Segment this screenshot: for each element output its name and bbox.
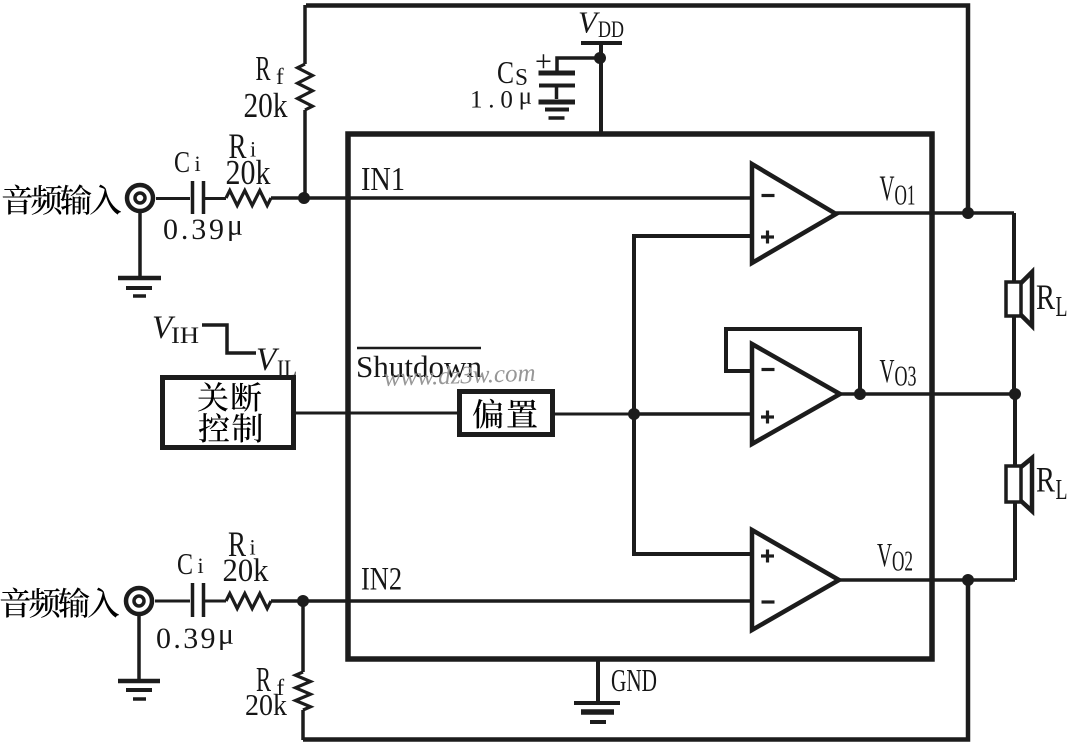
op-amp U1B [752,530,839,630]
svg-text:20k: 20k [226,153,271,192]
resistor Rf (top) 20k [244,5,313,198]
svg-text:C: C [177,546,193,581]
wire J2 to Ci [155,600,190,603]
svg-text:IN1: IN1 [361,161,405,198]
svg-text:C: C [174,144,190,179]
wire U1C output VO3 [840,392,1015,396]
label audio input 1 (Chinese) [3,184,121,215]
wire VO1 to speaker RL1 [1012,213,1016,282]
wire bottom feedback VO2 to Rf [303,580,968,740]
ground below J1 [118,211,161,296]
pin IN1 label [361,161,405,198]
node VO2 feedback junction [962,574,974,586]
ground below J2 [118,614,160,699]
resistor Ri (top) 20k [226,126,272,206]
speaker RL2 [1006,458,1067,511]
wire VDD to IC [599,43,603,134]
node VO3 speaker junction [1009,388,1021,400]
wire Ci to Ri (bottom) [205,600,226,603]
node IN1 junction [298,192,310,204]
pin Shutdown label with overline [356,348,482,384]
pin GND label [611,662,657,698]
node VIH label [152,310,199,348]
wire bias to node A [552,413,634,416]
capacitor CS [497,45,575,99]
svg-text:GND: GND [611,662,657,698]
wire speaker RL2 to VO2 [1013,502,1017,580]
svg-text:+: + [535,45,552,78]
wire top feedback VO1 to Rf [306,6,968,214]
node VO3 label [880,353,917,393]
ground below CS [539,102,576,118]
svg-text:V: V [578,5,600,40]
op-amp U1C [752,344,840,444]
connector J2 input jack [126,588,152,614]
svg-text:L: L [1056,292,1067,323]
wire J1 to Ci [156,197,190,200]
wire Ci to Ri [205,197,226,200]
svg-text:IN2: IN2 [361,562,402,598]
wire VIH-VIL step waveform [202,325,256,353]
node U1C output junction [854,388,866,400]
pin GND wire [596,659,600,702]
wire VO3 to speaker RL2 [1013,394,1017,466]
wire shutdown control to bias [295,412,459,415]
node VO2 label [877,537,913,578]
svg-text:i: i [198,553,204,578]
power VDD symbol [578,5,624,44]
svg-text:O3: O3 [895,362,917,393]
svg-text:20k: 20k [245,687,287,722]
svg-text:1.0μ: 1.0μ [470,83,532,114]
block bias (Chinese) [460,392,553,435]
svg-text:IH: IH [171,323,199,348]
node VO1 label [880,168,916,212]
resistor Rf (bottom) 20k [245,601,311,740]
capacitor Ci (bottom) [177,546,204,617]
watermark [383,360,536,392]
svg-text:R: R [1036,460,1055,500]
svg-text:0.39μ: 0.39μ [156,618,234,656]
node VIL label [256,342,297,381]
wire bias rail to U1A + and U1B + [634,236,752,554]
svg-text:i: i [195,151,201,176]
wire U1A output VO1 [836,211,1014,215]
ground GND symbol [574,703,620,722]
wire Ri to IN2 (U1B inverting input) [271,599,752,603]
svg-text:DD: DD [598,17,624,42]
wire VDD to CS [557,58,600,71]
svg-text:0.39μ: 0.39μ [163,209,243,247]
svg-text:R: R [256,49,271,88]
node VO1 feedback junction [962,207,974,219]
IC block outline U1 [348,134,932,659]
svg-text:R: R [1036,277,1055,317]
node IN2 junction [297,595,309,607]
block shutdown control (Chinese) [163,378,294,448]
resistor Ri (bottom) 20k [223,524,272,609]
svg-text:V: V [877,537,892,574]
svg-text:V: V [880,353,895,390]
svg-text:O2: O2 [892,547,913,578]
speaker RL1 [1006,272,1067,326]
svg-text:20k: 20k [244,86,288,125]
connector J1 input jack [127,185,153,211]
node A bias junction [628,408,640,420]
svg-text:www.dz3w.com: www.dz3w.com [383,360,536,392]
value CS 1.0u [470,83,532,114]
wire Ri to IN1 (U1A inverting input) [271,196,752,200]
svg-text:V: V [880,168,895,208]
wire node A to U1C + input [634,412,752,416]
svg-text:O1: O1 [895,181,916,212]
op-amp U1A [752,164,836,263]
label audio input 2 (Chinese) [1,587,119,618]
wire U1C feedback loop [726,329,860,394]
pin IN2 label [361,562,402,598]
node VDD junction [594,52,606,64]
svg-text:20k: 20k [223,553,269,589]
svg-text:L: L [1056,475,1067,506]
capacitor Ci (top) [174,144,204,214]
value Ci 0.39u (bottom) [156,618,234,656]
wire U1B output VO2 [839,578,1015,582]
value Ci 0.39u (top) [163,209,243,247]
wire speaker RL1 to VO3 [1012,316,1016,394]
svg-text:C: C [497,54,514,90]
